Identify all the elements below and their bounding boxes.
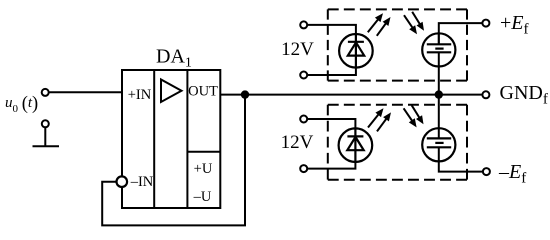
svg-text:–Ef: –Ef [498, 161, 526, 187]
wire feedback loop from -IN to output node [102, 97, 245, 225]
wire input to +IN [49, 91, 122, 93]
LED VD2 emission arrow 2 [377, 112, 391, 131]
node GNDf terminal [482, 91, 489, 98]
photocell BL1 received light arrow 2 [412, 12, 424, 31]
wire 12V lower top terminal to LED2 anode [308, 119, 356, 128]
node +Ef terminal [482, 20, 489, 27]
op-amp DA1 internal divider left [153, 70, 155, 208]
LED VD1 emission arrow 2 [377, 17, 391, 36]
op-amp DA1 body [122, 70, 220, 208]
op-amp DA1 inverting input circle [117, 176, 128, 187]
svg-text:OUT: OUT [188, 84, 218, 100]
photocell BL1 [422, 33, 455, 66]
node 12V lower top terminal [300, 116, 307, 123]
wire GNDf line down to BL2 top [438, 95, 440, 139]
node 12V upper top terminal [300, 21, 307, 28]
optocoupler U3 dashed box (bottom) [328, 105, 467, 180]
svg-text:12V: 12V [281, 132, 314, 153]
wire BL1 bottom to GNDf line [438, 52, 440, 94]
LED VD1 [339, 34, 373, 68]
op-amp DA1 internal divider right [186, 70, 188, 208]
wire 12V lower bottom terminal to LED2 cathode [308, 162, 356, 169]
op-amp DA1 supply sub-box divider [187, 151, 220, 153]
LED VD2 emission arrow 1 [368, 108, 384, 127]
junction output node [242, 91, 248, 97]
svg-text:12V: 12V [281, 39, 314, 60]
node -Ef terminal [483, 168, 490, 175]
svg-text:–IN: –IN [130, 174, 154, 190]
svg-text:–U: –U [193, 189, 212, 205]
photocell BL1 received light arrow 1 [404, 15, 417, 34]
photocell BL2 [422, 128, 455, 161]
wire BL2 bottom to -Ef terminal [439, 147, 483, 171]
svg-text:+IN: +IN [128, 87, 152, 103]
ground [33, 120, 60, 146]
node 12V lower bottom terminal [300, 165, 307, 172]
svg-text:+U: +U [194, 161, 213, 177]
node 12V upper bottom terminal [300, 72, 307, 79]
wire 12V top terminal to LED1 anode [308, 25, 356, 34]
op-amp DA1 amplifier triangle [161, 80, 182, 103]
photocell BL2 received light arrow 2 [412, 105, 424, 124]
LED VD1 emission arrow 1 [368, 13, 383, 32]
LED VD2 [339, 128, 373, 162]
svg-text:DA1: DA1 [156, 46, 192, 71]
node u0(t) input terminal [42, 89, 49, 96]
wire 12V bottom terminal to LED1 cathode [308, 68, 356, 75]
wire OUT to GNDf terminal [220, 94, 482, 96]
svg-text:+Ef: +Ef [500, 12, 529, 38]
junction GNDf column node [436, 91, 442, 97]
svg-text:u0 (t): u0 (t) [5, 94, 38, 115]
photocell BL2 received light arrow 1 [404, 108, 417, 127]
wire BL1 top to +Ef terminal [439, 23, 482, 33]
optocoupler U2 dashed box (top) [328, 9, 467, 80]
svg-text:GNDf: GNDf [500, 82, 548, 108]
